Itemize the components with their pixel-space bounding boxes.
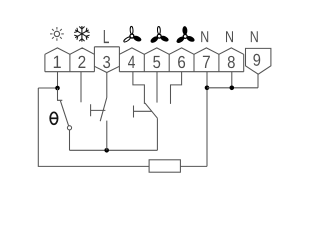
wire terminal 6 with jog	[171, 72, 182, 104]
label terminal 7	[203, 56, 210, 68]
wire terminal 3 upper section	[106, 73, 108, 98]
wire terminal 8 down	[231, 72, 233, 88]
icon fan speed 3 above terminal 6	[175, 26, 195, 44]
sensor theta	[50, 112, 57, 124]
terminal 3 body top and V-notch	[94, 47, 119, 73]
wire left rail down and bottom run	[38, 88, 149, 166]
label N above terminal 8	[226, 31, 233, 42]
thermostat contact pivot circle	[67, 126, 71, 130]
node terminal 8 junction dot	[230, 86, 235, 91]
label terminal 2	[78, 56, 85, 68]
wire fan common down to L-bus	[156, 118, 158, 150]
icon fan speed 2 above terminal 5	[149, 26, 169, 43]
wire node to left rail	[38, 87, 57, 89]
wire terminal 3 lower section to L node	[106, 121, 108, 151]
label terminal 4	[128, 56, 135, 68]
terminal 9 body	[246, 48, 271, 74]
wire terminal 5 straight	[156, 72, 158, 103]
icon snowflake (cooling) above terminal 2	[74, 26, 90, 42]
label terminal 5	[153, 56, 160, 68]
wire terminal 1 down to node	[57, 72, 59, 88]
resistor R1	[149, 160, 180, 172]
label terminal 9	[253, 54, 260, 66]
wire terminal 2 down	[80, 72, 82, 103]
L-bus horizontal wire	[70, 149, 158, 151]
label terminal 3	[103, 56, 110, 68]
label terminal 8	[228, 56, 235, 68]
thermostat contact blade	[60, 101, 68, 126]
terminal strip 1-8 outline	[45, 47, 244, 73]
label terminal 1	[54, 56, 61, 68]
label L above terminal 3	[104, 30, 109, 43]
node terminal 1 junction dot	[55, 86, 60, 91]
node terminal 7 junction dot	[205, 86, 210, 91]
node L junction dot	[104, 148, 109, 153]
heat-cool switch manual handle	[91, 104, 106, 116]
icon sun (heating) above terminal 1	[50, 27, 64, 41]
wire terminal 7 vertical	[206, 72, 208, 167]
heat-cool switch blade	[100, 98, 107, 122]
wire terminal 4 with jog	[133, 72, 145, 104]
wire resistor to terminal 7 rail	[180, 165, 207, 167]
fan switch manual handle	[134, 106, 152, 118]
thermostat contact fixed tick	[58, 88, 63, 100]
label N above terminal 7	[201, 31, 208, 42]
N-bus horizontal wire	[207, 87, 258, 89]
label terminal 6	[178, 56, 185, 68]
icon fan speed 1 above terminal 4	[122, 26, 141, 43]
label N above terminal 9	[251, 31, 258, 42]
wire terminal 9 down to N-bus	[257, 74, 259, 88]
fan switch blade	[145, 103, 158, 118]
wire pivot down to L-bus	[69, 130, 71, 150]
